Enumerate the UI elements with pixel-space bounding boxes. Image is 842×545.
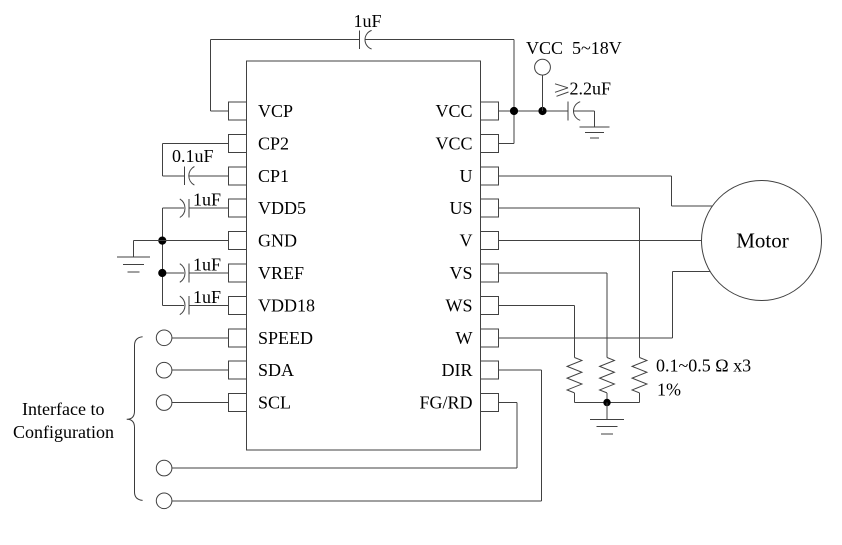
svg-text:1uF: 1uF [193, 287, 221, 307]
svg-text:Interface to: Interface to [22, 399, 104, 419]
svg-text:VDD18: VDD18 [258, 295, 315, 315]
svg-text:Motor: Motor [736, 229, 789, 253]
svg-text:U: U [460, 166, 473, 186]
svg-text:2.2uF: 2.2uF [570, 79, 612, 99]
svg-text:VS: VS [449, 263, 472, 283]
svg-text:VCC: VCC [435, 101, 472, 121]
svg-text:GND: GND [258, 231, 297, 251]
svg-text:1uF: 1uF [354, 11, 382, 31]
svg-text:DIR: DIR [442, 360, 473, 380]
svg-text:Configuration: Configuration [13, 422, 114, 442]
svg-text:CP2: CP2 [258, 133, 289, 153]
svg-text:FG/RD: FG/RD [419, 393, 472, 413]
svg-text:VDD5: VDD5 [258, 198, 306, 218]
svg-text:0.1uF: 0.1uF [172, 146, 214, 166]
svg-text:0.1~0.5 Ω x3: 0.1~0.5 Ω x3 [656, 356, 751, 376]
svg-text:SPEED: SPEED [258, 328, 313, 348]
svg-text:WS: WS [446, 295, 473, 315]
svg-text:1%: 1% [657, 380, 681, 400]
svg-text:VREF: VREF [258, 263, 304, 283]
svg-text:VCP: VCP [258, 101, 293, 121]
svg-text:CP1: CP1 [258, 166, 289, 186]
svg-text:1uF: 1uF [193, 255, 221, 275]
svg-text:1uF: 1uF [193, 190, 221, 210]
svg-text:US: US [449, 198, 472, 218]
svg-text:SCL: SCL [258, 393, 291, 413]
svg-text:W: W [456, 328, 473, 348]
svg-text:VCC: VCC [435, 133, 472, 153]
svg-text:V: V [460, 231, 473, 251]
svg-text:VCC 5~18V: VCC 5~18V [526, 38, 622, 58]
svg-text:SDA: SDA [258, 360, 294, 380]
